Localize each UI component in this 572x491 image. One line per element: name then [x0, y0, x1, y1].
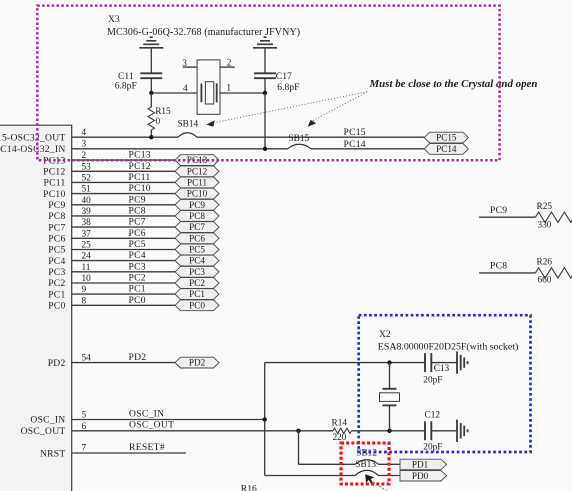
wire R14 to C12	[352, 430, 426, 432]
svg-text:660: 660	[538, 276, 552, 286]
svg-text:OSC_IN: OSC_IN	[129, 408, 164, 419]
resistor R25 330	[535, 202, 572, 231]
ground (above C11)	[139, 37, 163, 72]
svg-text:5: 5	[82, 411, 87, 421]
svg-text:PC10: PC10	[43, 189, 65, 200]
ground (right of C12)	[456, 420, 458, 442]
svg-text:6.8pF: 6.8pF	[277, 82, 299, 93]
svg-text:PC11: PC11	[44, 178, 66, 189]
pin 4 wire of X3	[151, 84, 197, 94]
svg-text:Must be close to the Crystal a: Must be close to the Crystal and open	[369, 78, 538, 90]
svg-text:PD2: PD2	[129, 352, 147, 363]
junction X2 top / C13	[387, 360, 391, 364]
svg-text:PC8: PC8	[490, 261, 507, 272]
wire C17 column down to PC14 wire	[264, 93, 266, 149]
svg-text:PC12: PC12	[129, 161, 151, 172]
svg-text:SB15: SB15	[289, 134, 310, 144]
svg-text:PC1: PC1	[129, 284, 146, 295]
dotted leader arrow to SB15	[308, 92, 368, 127]
svg-text:6: 6	[82, 422, 87, 432]
svg-text:PC9: PC9	[48, 200, 65, 211]
crystal X3 MC306-G-06Q-32.768	[107, 14, 300, 114]
net label PC15 (hex flag)	[424, 132, 468, 143]
net label PC12 (hex flag)	[175, 166, 219, 177]
svg-text:40: 40	[82, 196, 92, 206]
svg-text:6.8pF: 6.8pF	[115, 81, 137, 92]
wire pin 3 (PC14-OSC32_IN)	[0, 139, 424, 155]
svg-text:PC6: PC6	[129, 228, 146, 239]
svg-text:8: 8	[82, 296, 87, 306]
wire pin 51 (PC10)	[43, 183, 175, 200]
svg-text:PC6: PC6	[48, 234, 65, 245]
svg-text:PC10: PC10	[129, 183, 151, 194]
wire pin 40 (PC9)	[48, 194, 175, 211]
svg-text:39: 39	[82, 207, 92, 217]
net label PC13 (hex flag)	[175, 155, 219, 166]
svg-text:PC9: PC9	[129, 194, 146, 205]
svg-text:PC3: PC3	[48, 267, 65, 278]
wire PC9 to R25	[479, 205, 535, 217]
resistor R14 220	[332, 419, 352, 444]
net label PC3 (hex flag)	[175, 266, 219, 277]
wire OSC_IN branch bottom run to SB13/PD0	[265, 475, 355, 477]
svg-text:PC6: PC6	[189, 233, 205, 243]
svg-text:R26: R26	[537, 257, 553, 267]
resistor R26 660	[535, 257, 572, 285]
dotted leader arrow to SB14	[206, 92, 368, 127]
cursor arrow annotation at SB13	[365, 474, 388, 491]
wire pin 38 (PC7)	[48, 217, 175, 234]
svg-text:R25: R25	[537, 202, 553, 212]
svg-text:3: 3	[82, 139, 87, 149]
svg-text:C17: C17	[276, 71, 292, 82]
svg-text:PC2: PC2	[129, 273, 146, 284]
svg-text:PC0: PC0	[189, 300, 205, 310]
svg-text:PC7: PC7	[129, 217, 146, 228]
svg-text:PC12: PC12	[43, 167, 65, 178]
svg-text:PC4: PC4	[129, 250, 146, 261]
wire pin 11 (PC3)	[48, 261, 175, 278]
svg-text:51: 51	[82, 185, 92, 195]
pin 2 stub of X3	[220, 59, 235, 69]
svg-text:PC14-OSC32_IN: PC14-OSC32_IN	[0, 144, 66, 155]
svg-text:R16: R16	[241, 483, 257, 491]
svg-text:330: 330	[538, 221, 552, 231]
svg-text:PC5: PC5	[129, 239, 146, 250]
svg-text:PC7: PC7	[189, 222, 205, 232]
resistor R15 0	[148, 93, 171, 137]
svg-text:4: 4	[82, 128, 87, 138]
wire pin 10 (PC2)	[48, 273, 175, 290]
net label PC5 (hex flag)	[175, 244, 219, 255]
svg-text:OSC_IN: OSC_IN	[30, 415, 65, 426]
svg-text:PC3: PC3	[129, 261, 146, 272]
wire pin 24 (PC4)	[48, 250, 175, 267]
solder bridge SB14	[178, 119, 199, 137]
wire pin 37 (PC6)	[48, 228, 175, 245]
pin 1 wire of X3	[220, 84, 265, 94]
svg-text:PC1: PC1	[48, 289, 65, 300]
wire top run X2 to C13	[390, 362, 426, 364]
svg-text:R15: R15	[155, 107, 171, 117]
svg-text:PC9: PC9	[490, 205, 507, 216]
svg-text:PC12: PC12	[187, 166, 208, 176]
svg-text:SB14: SB14	[178, 119, 199, 129]
crystal X2 ESA8.00000F20D25F	[378, 329, 518, 431]
net label PD0 (flag)	[400, 471, 447, 482]
svg-text:38: 38	[82, 218, 92, 228]
svg-text:10: 10	[82, 274, 92, 284]
capacitor C17 6.8pF	[254, 71, 299, 93]
svg-text:OSC_OUT: OSC_OUT	[129, 420, 174, 431]
svg-text:PD2: PD2	[189, 358, 206, 368]
net label PC2 (hex flag)	[175, 278, 219, 289]
svg-text:3: 3	[182, 59, 187, 69]
svg-text:ESA8.00000F20D25F(with socket): ESA8.00000F20D25F(with socket)	[378, 342, 518, 353]
solder bridge SB13	[355, 460, 379, 476]
red dotted box around SB12/SB13	[341, 443, 389, 484]
junction X2 bottom / C12	[387, 429, 391, 433]
svg-text:4: 4	[183, 84, 188, 94]
wire SB13 to PD0 flag	[379, 475, 401, 477]
capacitor C11 6.8pF	[115, 71, 163, 93]
svg-text:0: 0	[156, 117, 161, 127]
net label PC14 (hex flag)	[424, 144, 468, 155]
junction OSC_OUT / PD1 branch	[296, 429, 300, 433]
blue dotted box around X2 section	[359, 315, 531, 452]
svg-text:24: 24	[82, 252, 92, 262]
wire pin 52 (PC11)	[44, 172, 175, 189]
svg-text:11: 11	[82, 263, 91, 273]
svg-text:PC14: PC14	[436, 144, 457, 154]
svg-text:PC7: PC7	[48, 222, 65, 233]
magenta dotted box around X3 crystal section	[37, 6, 499, 161]
svg-text:PC5: PC5	[48, 245, 65, 256]
svg-text:2: 2	[227, 59, 232, 69]
svg-text:PC8: PC8	[189, 211, 205, 221]
svg-text:20pF: 20pF	[423, 376, 442, 386]
svg-text:NRST: NRST	[40, 448, 66, 459]
net label PD1 (flag)	[400, 459, 447, 470]
wire pin 7 (RESET#) NRST	[40, 442, 186, 459]
wire pin 8 (PC0)	[48, 295, 175, 312]
wire pin 9 (PC1)	[48, 284, 175, 301]
svg-text:PD1: PD1	[412, 460, 429, 470]
svg-text:C13: C13	[434, 364, 450, 374]
svg-text:MC306-G-06Q-32.768 (manufactur: MC306-G-06Q-32.768 (manufacturer JFVNY)	[107, 27, 300, 38]
svg-text:X2: X2	[379, 329, 391, 340]
ground (right of C13)	[456, 351, 458, 373]
svg-text:PC8: PC8	[129, 206, 146, 217]
junction C17/pin1	[263, 91, 267, 95]
wire pin 4 (PC15-OSC32_OUT)	[0, 128, 424, 144]
svg-text:PC9: PC9	[189, 200, 205, 210]
svg-text:PC15: PC15	[344, 127, 366, 138]
solder bridge SB15	[288, 134, 312, 149]
svg-text:PC15-OSC32_OUT: PC15-OSC32_OUT	[0, 132, 66, 143]
svg-text:54: 54	[82, 354, 92, 364]
svg-text:SB13: SB13	[355, 460, 376, 470]
capacitor C13 20pF	[423, 353, 457, 386]
junction R15/PC15 wire	[149, 135, 153, 139]
net label PC0 (hex flag)	[175, 300, 219, 311]
net label PC4 (hex flag)	[175, 255, 219, 266]
junction C17 column / PC14 wire	[263, 147, 267, 151]
wire OSC_IN net: vertical riser and top run to X2	[265, 363, 390, 476]
svg-text:PC2: PC2	[189, 278, 205, 288]
wire pin 39 (PC8)	[48, 206, 175, 223]
svg-text:PC10: PC10	[187, 189, 208, 199]
svg-text:PC8: PC8	[48, 211, 65, 222]
svg-text:PC11: PC11	[187, 177, 207, 187]
svg-text:25: 25	[82, 241, 92, 251]
svg-text:53: 53	[82, 162, 92, 172]
wire OSC_OUT branch down to SB12/PD1	[299, 431, 356, 465]
svg-text:PC14: PC14	[344, 139, 366, 150]
net label PC9 (hex flag)	[175, 199, 219, 210]
wire pin 53 (PC12)	[43, 161, 175, 178]
ground (above C17)	[253, 37, 277, 72]
wire pin 54 (PD2)	[48, 352, 175, 369]
net label PC7 (hex flag)	[175, 222, 219, 233]
wire SB12 to PD1 flag	[379, 463, 401, 465]
svg-text:PC1: PC1	[189, 289, 205, 299]
svg-text:PC11: PC11	[129, 172, 151, 183]
net label PC1 (hex flag)	[175, 289, 219, 300]
wire PC8 to R26	[479, 261, 535, 273]
junction OSC_IN riser	[263, 417, 267, 421]
MCU chip body (partially cut off at left edge)	[0, 125, 72, 491]
svg-text:PC15: PC15	[436, 133, 457, 143]
svg-text:7: 7	[82, 444, 87, 454]
net label PC6 (hex flag)	[175, 233, 219, 244]
pin 3 stub of X3	[182, 59, 197, 69]
net label PC11 (hex flag)	[175, 177, 219, 188]
wire pin 5 (OSC_IN)	[30, 408, 264, 425]
solder bridge SB12	[355, 449, 379, 465]
svg-text:1: 1	[226, 84, 231, 94]
svg-text:52: 52	[82, 173, 92, 183]
svg-text:PC3: PC3	[189, 267, 205, 277]
wire pin 25 (PC5)	[48, 239, 175, 256]
net label PC10 (hex flag)	[175, 188, 219, 199]
svg-text:37: 37	[82, 229, 92, 239]
svg-text:PC5: PC5	[189, 245, 205, 255]
net label PC8 (hex flag)	[175, 211, 219, 222]
capacitor C12 20pF	[423, 411, 457, 453]
svg-text:R14: R14	[332, 419, 348, 429]
junction C11/pin4	[149, 91, 153, 95]
svg-text:PD0: PD0	[412, 471, 429, 481]
svg-text:PC4: PC4	[189, 256, 205, 266]
svg-text:C12: C12	[425, 411, 441, 421]
svg-text:PC0: PC0	[129, 295, 146, 306]
svg-text:9: 9	[82, 285, 87, 295]
svg-text:RESET#: RESET#	[129, 442, 165, 453]
wire pin 2 (PC13)	[43, 150, 175, 167]
svg-text:PC2: PC2	[48, 278, 65, 289]
wire pin 6 (OSC_OUT)	[21, 420, 333, 437]
svg-text:X3: X3	[108, 14, 120, 25]
svg-text:PC4: PC4	[48, 256, 65, 267]
svg-text:PC0: PC0	[48, 301, 65, 312]
svg-text:SB12: SB12	[356, 449, 377, 459]
svg-text:OSC_OUT: OSC_OUT	[21, 426, 66, 437]
svg-text:PD2: PD2	[48, 358, 66, 369]
net label PD2 (hex flag)	[175, 357, 219, 368]
